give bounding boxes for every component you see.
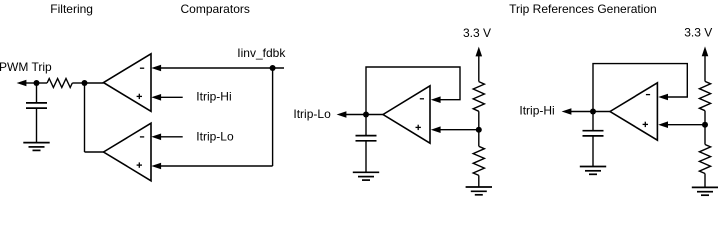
wire: Itrip-Lo output with left arrow	[337, 111, 366, 118]
capacitor (filter)	[26, 83, 47, 143]
capacitor (Itrip-Hi reference)	[583, 112, 604, 167]
node: Iinv_fdbk junction	[270, 65, 276, 71]
svg-text:3.3 V: 3.3 V	[684, 25, 712, 39]
net label Iinv_fdbk	[237, 46, 286, 60]
power rail label 3.3 V (right)	[684, 25, 712, 39]
U1 inverting input marker	[140, 67, 144, 69]
wire: node to U4 output	[593, 111, 610, 113]
net label Itrip-Lo into U2 - (arrow)	[151, 129, 234, 143]
resistor (divider top, right)	[699, 81, 710, 110]
svg-text:Trip References Generation: Trip References Generation	[509, 2, 657, 16]
svg-text:Itrip-Lo: Itrip-Lo	[196, 129, 234, 143]
comparator U1	[104, 54, 152, 112]
wire: Iinv_fdbk to U2 noninverting input (arrow)	[151, 163, 272, 170]
wire: node to U3 output	[366, 114, 383, 116]
wire: Itrip-Hi output with left arrow	[562, 108, 593, 115]
resistor (series filter)	[37, 79, 85, 88]
wire: node to comparator U1 output	[85, 82, 104, 84]
svg-text:Iinv_fdbk: Iinv_fdbk	[237, 46, 286, 60]
net label Itrip-Hi (output)	[519, 104, 554, 118]
node: comparator output bus junction	[82, 80, 88, 86]
ground (Itrip-Hi capacitor)	[580, 167, 606, 175]
wire: resistor to ground (middle)	[478, 175, 480, 187]
ground (filter capacitor)	[23, 143, 49, 151]
svg-text:PWM Trip: PWM Trip	[0, 60, 52, 74]
wire: resistor to divider tap (middle)	[478, 111, 480, 129]
comparator U2	[104, 123, 152, 181]
wire: Iinv_fdbk junction down	[272, 68, 274, 166]
wire: U4 feedback loop to inverting input (arrow)	[593, 64, 687, 112]
svg-text:Comparators: Comparators	[181, 2, 250, 16]
node: divider tap (middle)	[476, 127, 482, 133]
power rail label 3.3 V (middle)	[463, 26, 491, 40]
node: divider tap (right)	[702, 122, 708, 128]
wire: Iinv_fdbk to U1 inverting input (arrow)	[151, 65, 284, 72]
wire: output bus down to U2 output	[85, 83, 104, 152]
power 3.3 V arrow (right)	[702, 46, 709, 81]
resistor (divider top, middle)	[473, 82, 484, 112]
svg-text:3.3 V: 3.3 V	[463, 26, 491, 40]
node: U4 output junction	[590, 109, 596, 115]
section label "Filtering"	[50, 2, 93, 16]
svg-text:Itrip-Hi: Itrip-Hi	[196, 90, 231, 104]
wire: tap down to lower resistor (right)	[704, 125, 706, 145]
ground (divider, right)	[692, 187, 718, 195]
U4 noninverting input marker	[643, 122, 648, 127]
wire: resistor to ground (right)	[704, 174, 706, 188]
op-amp U3	[383, 86, 430, 143]
svg-text:Itrip-Hi: Itrip-Hi	[519, 104, 554, 118]
wire: divider tap to U4 noninverting input (arrow)	[658, 121, 705, 128]
section label "Comparators"	[181, 2, 250, 16]
wire: PWM Trip output with left arrow	[17, 80, 37, 87]
U2 noninverting input marker	[137, 162, 142, 167]
net label PWM Trip	[0, 60, 52, 74]
U3 inverting input marker	[420, 98, 424, 100]
svg-text:Itrip-Lo: Itrip-Lo	[293, 107, 331, 121]
net label Itrip-Lo (output)	[293, 107, 331, 121]
node: U3 output junction	[363, 112, 369, 118]
wire: divider tap to U3 noninverting input (arrow)	[431, 126, 479, 133]
wire: tap down to lower resistor (middle)	[478, 130, 480, 147]
ground (divider, middle)	[466, 187, 492, 195]
U4 inverting input marker	[646, 94, 650, 96]
capacitor (Itrip-Lo reference)	[356, 115, 377, 173]
node: filter input junction	[34, 80, 40, 86]
net label Itrip-Hi into U1 + (arrow)	[151, 90, 231, 104]
U2 inverting input marker	[140, 136, 144, 138]
resistor (divider bottom, right)	[699, 145, 710, 174]
op-amp U4	[610, 83, 657, 140]
U3 noninverting input marker	[416, 125, 421, 130]
U1 noninverting input marker	[137, 94, 142, 99]
power 3.3 V arrow (middle)	[476, 47, 483, 82]
resistor (divider bottom, middle)	[473, 146, 484, 175]
svg-text:Filtering: Filtering	[50, 2, 93, 16]
ground (Itrip-Lo capacitor)	[353, 172, 379, 180]
wire: U3 feedback loop to inverting input (arrow)	[366, 67, 460, 115]
wire: resistor to divider tap (right)	[704, 111, 706, 125]
section label "Trip References Generation"	[509, 2, 657, 16]
